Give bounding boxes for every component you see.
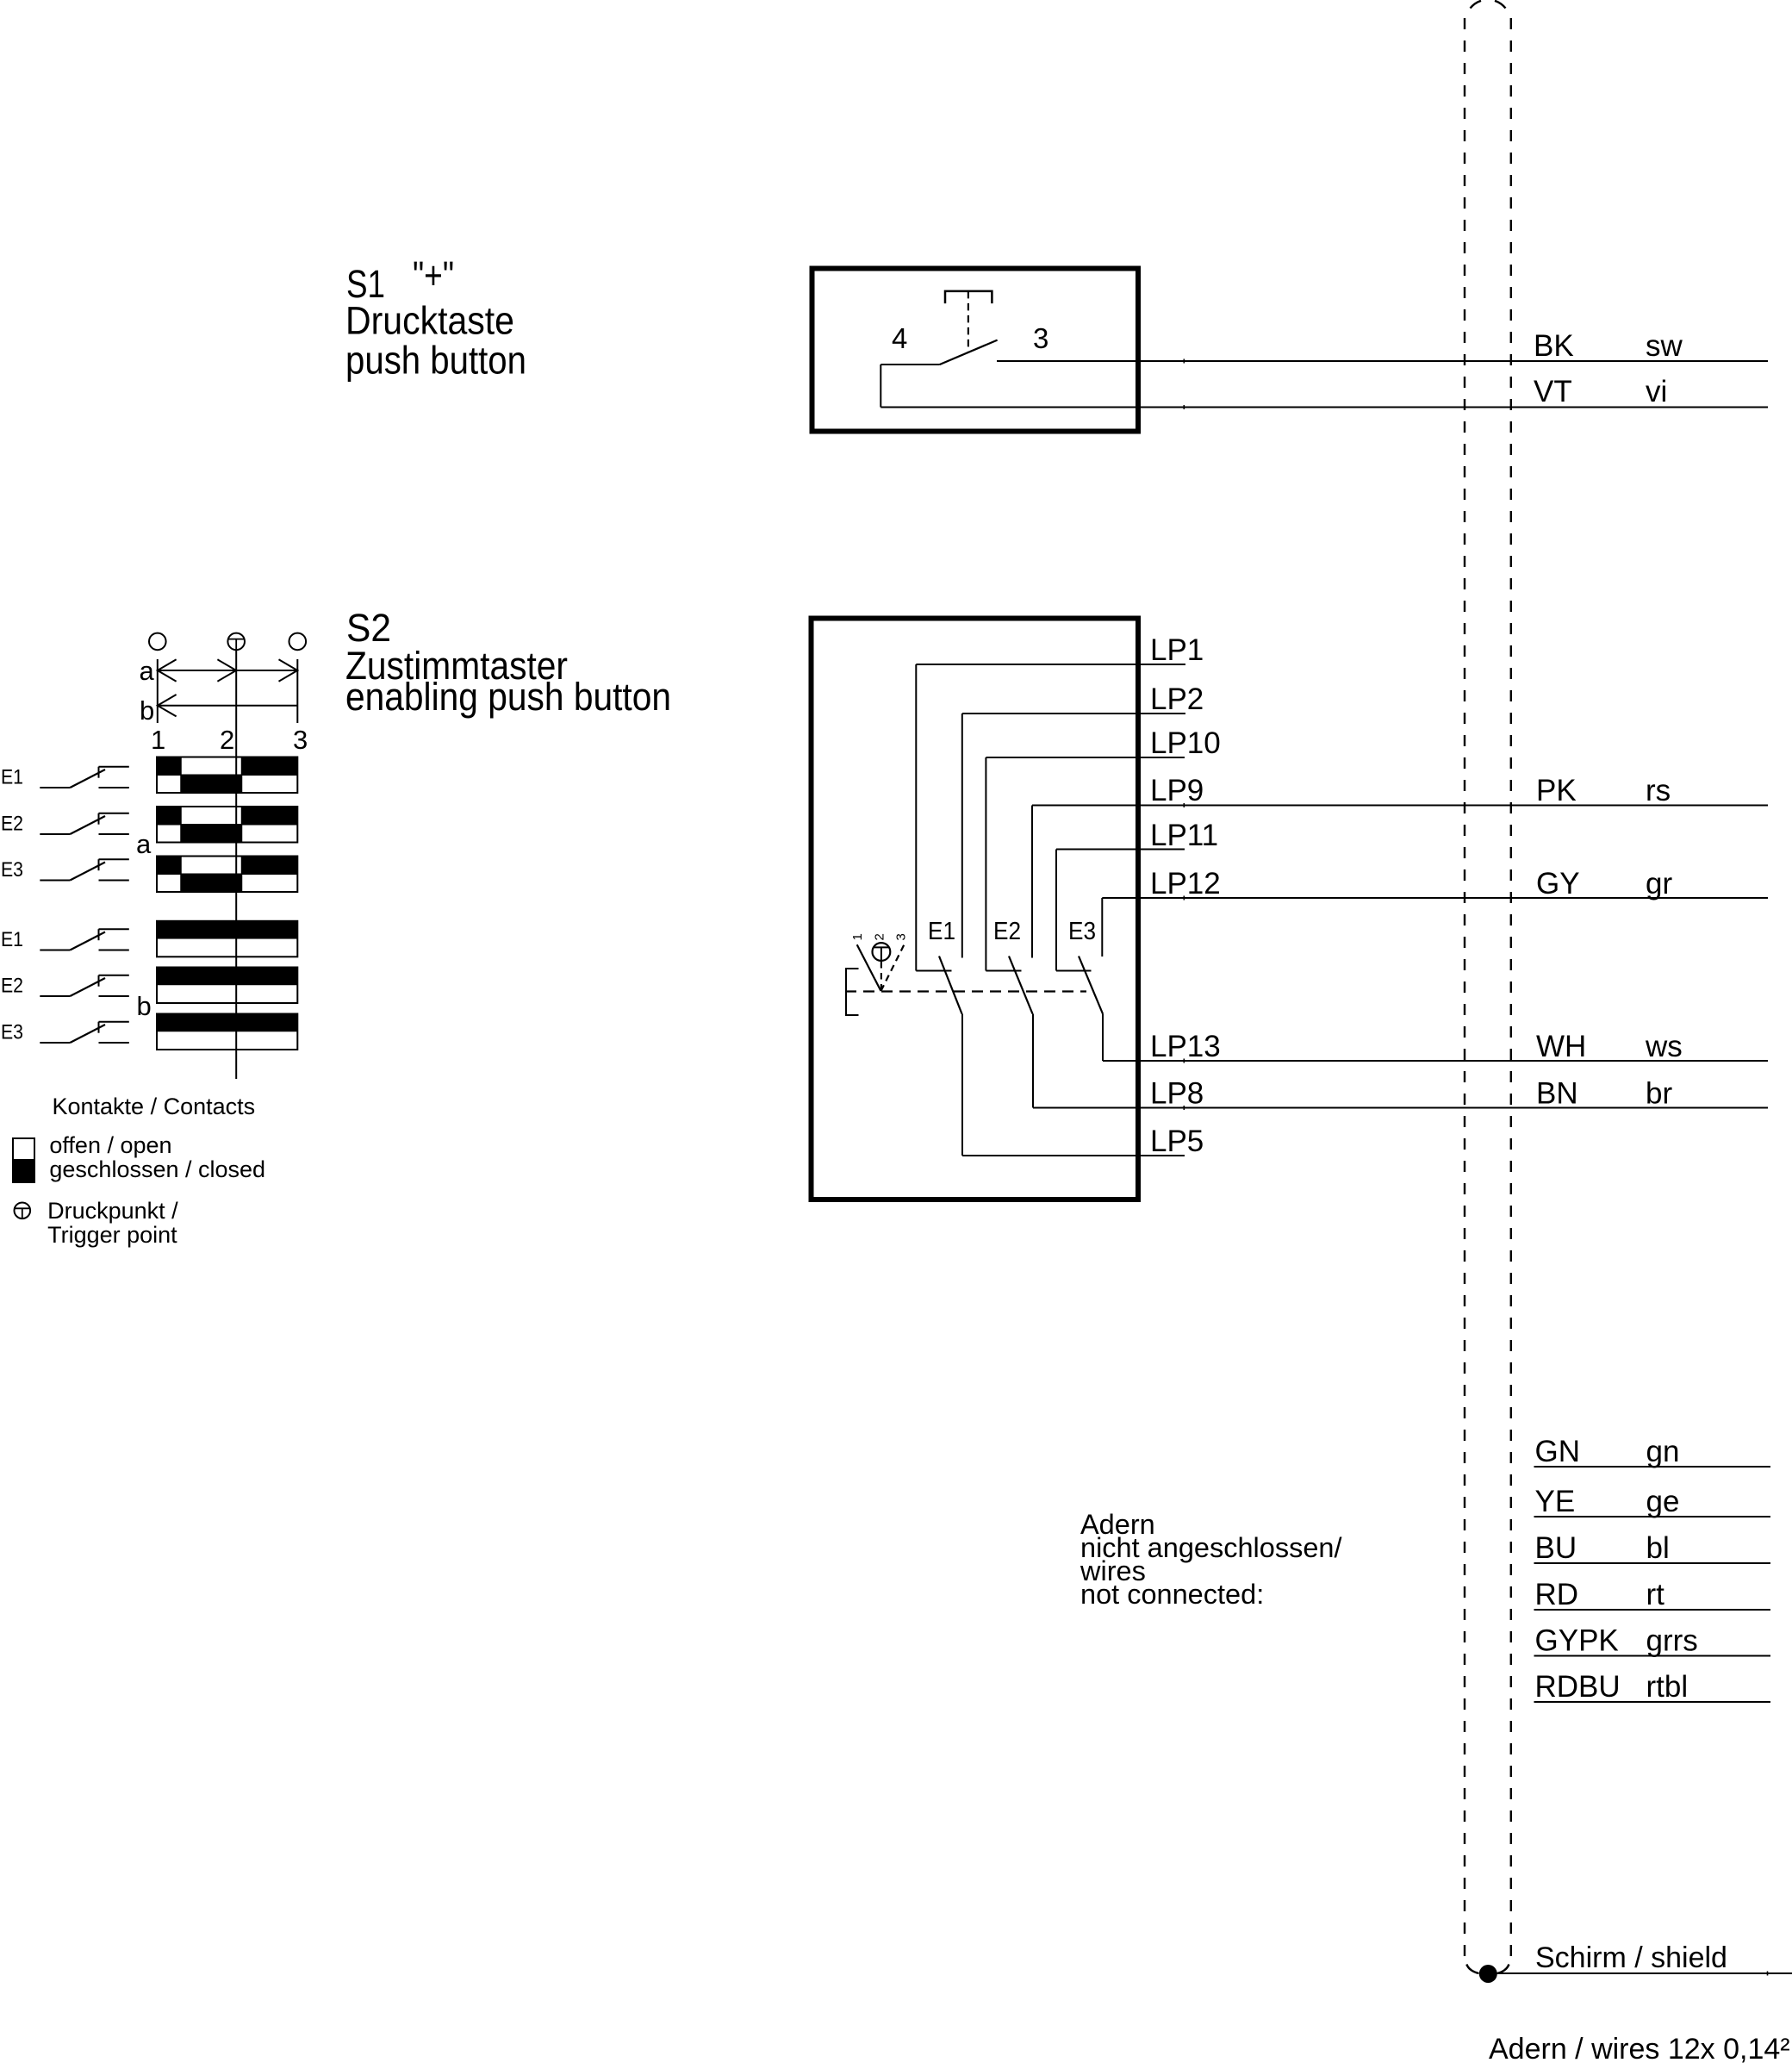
switch E2 lower wire to LP8 [1032,1014,1034,1108]
legend text offen / open [49,1132,171,1158]
wire LP8 / BN (to cable) [1033,1106,1768,1110]
S2 name enabling push button [345,675,671,719]
contact symbol E1 (group b) [40,929,129,950]
cable shield junction dot [1479,1965,1497,1983]
svg-text:not connected:: not connected: [1080,1579,1264,1610]
switch E1 upper wire to LP2 [961,714,963,958]
wire LP9 / PK (to cable) [1032,803,1768,807]
travel diagram tick position 3 [296,659,298,723]
svg-text:bl: bl [1646,1531,1670,1565]
svg-text:LP1: LP1 [1150,633,1204,667]
travel b dimension line with arrow [158,695,297,716]
wire VT (pin 4 to cable) [880,405,1768,409]
wire label GYPK [1535,1624,1619,1658]
contact chart E2 row b [157,968,297,1004]
svg-text:b: b [140,695,154,726]
switch E2 fixed contact bar [986,970,1021,972]
switch E3 upper wire to LP11 [1055,850,1057,971]
wire label ge [1646,1485,1680,1518]
cable sheath right dashed edge [1510,18,1512,1957]
svg-text:Schirm / shield: Schirm / shield [1535,1941,1727,1974]
wire label GN [1535,1435,1581,1468]
switch E1 lower wire to LP5 [961,1014,963,1156]
travel diagram tick position 1 [157,659,159,723]
node LP2 label [1150,682,1204,716]
node LP11 label [1150,819,1218,852]
switch E3 label [1068,918,1096,945]
svg-text:grrs: grrs [1646,1624,1698,1658]
node LP5 wire [962,1155,1185,1156]
unconnected wire BU [1534,1562,1771,1564]
svg-text:ws: ws [1645,1030,1683,1063]
contact symbol label E1 (group a) [1,765,23,788]
svg-text:3: 3 [293,725,308,755]
travel diagram position-1 circle [149,633,166,651]
S1 contact blade [940,340,998,365]
node LP1 label [1150,633,1204,667]
table caption Kontakte / Contacts [53,1094,256,1119]
S2 name Zustimmtaster [345,644,568,688]
svg-text:E1: E1 [1,765,23,788]
S1 contact left lead (pin 4) [880,364,939,365]
enabling switch S2 enclosure box [812,619,1139,1200]
switch E1 upper wire to LP1 [915,664,917,971]
node LP2 wire [962,713,1185,714]
unconnected wire RDBU [1534,1701,1771,1703]
S2 actuator position label 3 [894,933,909,940]
unconnected wire YE [1534,1516,1771,1517]
svg-text:3: 3 [1033,322,1048,354]
note Adern nicht angeschlossen [1080,1509,1342,1610]
wire label BK [1534,329,1574,363]
travel a label [140,656,155,686]
wire label PK [1536,774,1577,807]
svg-text:2: 2 [220,725,234,755]
S2 actuator position-3 dashed stroke [881,944,905,991]
svg-text:Adern / wires 12x 0,14²: Adern / wires 12x 0,14² [1489,2033,1790,2066]
wire label GY [1536,867,1580,901]
svg-text:a: a [140,656,155,686]
wire label br [1646,1077,1672,1111]
unconnected wire GN [1534,1466,1771,1468]
switch E3 blade [1079,957,1103,1014]
svg-text:rt: rt [1646,1578,1665,1611]
svg-text:b: b [137,991,152,1021]
wire label gn [1646,1435,1680,1468]
svg-text:E2: E2 [993,918,1021,945]
S1 actuator dashed link [968,291,969,352]
switch E1 blade [939,957,962,1014]
svg-text:E3: E3 [1,1020,23,1044]
svg-text:vi: vi [1646,375,1667,408]
contact symbol label E1 (group b) [1,928,23,951]
shield label Schirm / shield [1535,1941,1727,1974]
svg-text:push button: push button [345,339,526,383]
travel diagram position-2 trigger point circle [227,633,245,651]
contact symbol E3 (group a) [40,859,129,880]
svg-text:VT: VT [1534,375,1572,408]
svg-text:LP9: LP9 [1150,774,1204,807]
node LP10 wire [986,757,1185,758]
cable sheath left dashed edge [1464,18,1465,1957]
svg-text:ge: ge [1646,1485,1680,1518]
S1 pin 3 label [1033,322,1048,354]
wire label rtbl [1646,1670,1689,1704]
S2 actuator position-2 dashed stroke [880,962,882,991]
svg-text:GN: GN [1535,1435,1581,1468]
switch E3 lower wire to LP13 [1102,1014,1104,1062]
contact symbol label E3 (group b) [1,1020,23,1044]
wire BK (pin 3 to cable) [997,359,1768,364]
svg-text:GY: GY [1536,867,1580,901]
unconnected wire RD [1534,1609,1771,1611]
S1 pin 4 label [892,322,907,354]
svg-text:geschlossen / closed: geschlossen / closed [49,1156,265,1182]
svg-text:E2: E2 [1,974,23,997]
S2 actuator position label 2 [873,933,887,940]
svg-text:Druckpunkt /: Druckpunkt / [47,1198,178,1224]
S2 reference designator label [346,606,391,650]
S1 pin4 down-jog wire [880,365,881,408]
group b label [137,991,152,1021]
svg-text:E3: E3 [1,858,23,882]
wire shield [1488,1972,1792,1976]
svg-text:Drucktaste: Drucktaste [345,299,514,343]
svg-text:LP10: LP10 [1150,726,1221,760]
switch E3 upper wire to LP12 [1101,898,1103,957]
node LP12 label [1150,867,1221,901]
wire label YE [1535,1485,1576,1518]
contact chart E3 row b [157,1014,297,1050]
wire label VT [1534,375,1572,408]
S2 trigger point symbol [873,943,891,962]
node LP9 label [1150,774,1204,807]
svg-text:rs: rs [1646,774,1671,807]
svg-text:br: br [1646,1077,1672,1111]
S1 name push button [345,339,526,383]
switch E2 label [993,918,1021,945]
svg-text:GYPK: GYPK [1535,1624,1619,1658]
wire label WH [1536,1030,1586,1063]
wire label RDBU [1535,1670,1621,1704]
svg-text:offen / open: offen / open [49,1132,171,1158]
svg-text:gr: gr [1646,867,1672,901]
svg-text:E3: E3 [1068,918,1096,945]
svg-text:LP8: LP8 [1150,1077,1204,1111]
wire LP12 / GY (to cable) [1102,896,1768,901]
svg-text:YE: YE [1535,1485,1576,1518]
position number 3 [293,725,308,755]
contact symbol E2 (group b) [40,975,129,996]
switch E2 upper wire to LP9 [1031,806,1033,958]
wire label rt [1646,1578,1665,1611]
S1 push-button actuator bracket [945,291,992,303]
switch E1 label [928,918,955,945]
S1 reference designator label [346,262,385,306]
legend closed-state square [12,1160,35,1183]
svg-text:RDBU: RDBU [1535,1670,1621,1704]
position number 2 [220,725,234,755]
S2 actuator position-1 stroke [857,944,881,991]
wire label bl [1646,1531,1670,1565]
svg-text:E1: E1 [1,928,23,951]
wire label vi [1646,375,1667,408]
svg-text:LP13: LP13 [1150,1030,1221,1063]
legend open-state square [13,1138,34,1160]
wire label ws [1645,1030,1683,1063]
node LP11 wire [1056,849,1185,851]
contact symbol label E2 (group a) [1,812,23,835]
legend text geschlossen / closed [49,1156,265,1182]
wire label BN [1536,1077,1578,1111]
wire label BU [1535,1531,1577,1565]
svg-text:BK: BK [1534,329,1574,363]
S2 actuator bracket [846,969,859,1015]
group a label [136,829,152,859]
svg-text:PK: PK [1536,774,1577,807]
S1 name Drucktaste [345,299,514,343]
cable sheath top dome [1471,1,1506,9]
wire label RD [1535,1578,1579,1611]
switch E1 fixed contact bar [916,970,951,972]
switch E2 blade [1009,957,1033,1014]
contact symbol E2 (group a) [40,813,129,834]
wire label gr [1646,867,1672,901]
svg-text:BU: BU [1535,1531,1577,1565]
contact symbol E3 (group b) [40,1022,129,1043]
node LP5 label [1150,1125,1204,1158]
travel a dimension line with arrows [158,659,297,681]
contact chart E3 row a [157,857,297,893]
travel b label [140,695,154,726]
S2 actuator position label 1 [850,933,865,940]
svg-text:Trigger point: Trigger point [47,1222,177,1248]
svg-text:4: 4 [892,322,907,354]
legend text Druckpunkt / [47,1198,178,1224]
wire LP13 / WH (to cable) [1103,1059,1768,1063]
push button S1 enclosure box [812,269,1139,432]
switch E2 upper wire to LP10 [985,757,986,971]
unconnected wire GYPK [1534,1655,1771,1657]
node LP13 label [1150,1030,1221,1063]
svg-text:2: 2 [873,933,887,940]
svg-text:1: 1 [850,933,865,940]
contact chart E1 row a [157,757,297,794]
svg-text:LP12: LP12 [1150,867,1221,901]
svg-text:LP11: LP11 [1150,819,1218,852]
svg-text:"+": "+" [413,253,454,297]
node LP8 label [1150,1077,1204,1111]
node LP1 wire [916,664,1185,665]
svg-text:LP2: LP2 [1150,682,1204,716]
contact chart E1 row b [157,921,297,957]
travel diagram centre line position 2 [235,650,237,1079]
svg-text:WH: WH [1536,1030,1586,1063]
svg-text:Kontakte / Contacts: Kontakte / Contacts [53,1094,256,1119]
legend trigger point symbol [15,1203,31,1219]
S2 mechanical coupling dashed line [845,990,1086,992]
svg-text:gn: gn [1646,1435,1680,1468]
wire label sw [1646,329,1683,363]
contact symbol label E3 (group a) [1,858,23,882]
svg-text:LP5: LP5 [1150,1125,1204,1158]
S1 "+" actuation label [413,253,454,297]
svg-text:E1: E1 [928,918,955,945]
svg-text:3: 3 [894,933,909,940]
svg-text:BN: BN [1536,1077,1578,1111]
switch E3 fixed contact bar [1056,970,1092,972]
contact symbol label E2 (group b) [1,974,23,997]
contact chart E2 row a [157,807,297,843]
legend text Trigger point [47,1222,177,1248]
wire label rs [1646,774,1671,807]
node LP10 label [1150,726,1221,760]
svg-text:E2: E2 [1,812,23,835]
cable size note Adern / wires 12x 0,14 sq [1489,2033,1790,2066]
svg-text:sw: sw [1646,329,1683,363]
svg-text:rtbl: rtbl [1646,1670,1689,1704]
svg-text:enabling push button: enabling push button [345,675,671,719]
wire label grrs [1646,1624,1698,1658]
svg-text:a: a [136,829,152,859]
cable sheath bottom funnel to shield [1466,1965,1509,1974]
travel diagram position-3 circle [289,633,307,651]
svg-text:RD: RD [1535,1578,1579,1611]
svg-text:1: 1 [151,725,165,755]
position number 1 [151,725,165,755]
contact symbol E1 (group a) [40,767,129,788]
